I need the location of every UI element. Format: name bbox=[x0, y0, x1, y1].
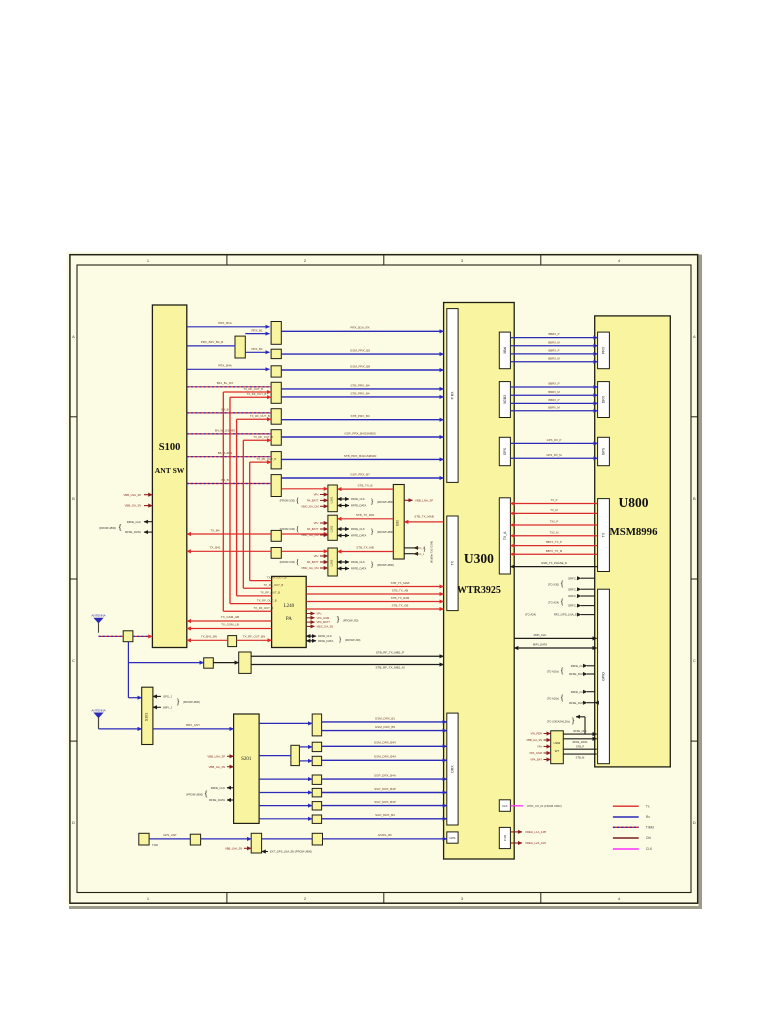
svg-text:TX_GSM_LB: TX_GSM_LB bbox=[221, 623, 239, 627]
svg-text:STB_TX_GB: STB_TX_GB bbox=[392, 604, 409, 608]
svg-text:{: { bbox=[560, 694, 564, 703]
svg-text:TriMd: TriMd bbox=[646, 826, 654, 830]
svg-text:VPx: VPx bbox=[537, 745, 543, 749]
svg-text:(FROM U800): (FROM U800) bbox=[377, 500, 394, 504]
svg-text:XBal: XBal bbox=[503, 347, 507, 354]
svg-text:B: B bbox=[72, 496, 75, 501]
svg-text:L240: L240 bbox=[284, 604, 295, 609]
svg-text:WIFI_J: WIFI_J bbox=[163, 705, 172, 709]
svg-text:}: } bbox=[370, 527, 374, 536]
svg-text:RFFE_DATA: RFFE_DATA bbox=[351, 504, 366, 508]
svg-text:BBRX_P: BBRX_P bbox=[548, 382, 559, 386]
svg-text:BBRX_P: BBRX_P bbox=[548, 332, 559, 336]
svg-text:WTR_XO_IN (FROM U802): WTR_XO_IN (FROM U802) bbox=[527, 804, 562, 808]
svg-text:GSM_DRX_B4V: GSM_DRX_B4V bbox=[374, 741, 396, 745]
svg-text:SGP_DRX_B3P: SGP_DRX_B3P bbox=[374, 800, 396, 804]
svg-text:}: } bbox=[370, 497, 374, 506]
svg-text:RFFE_DATA: RFFE_DATA bbox=[573, 740, 588, 744]
svg-text:{: { bbox=[204, 789, 208, 799]
svg-text:GSM_TX_PHASE_D: GSM_TX_PHASE_D bbox=[541, 561, 567, 565]
svg-text:(FROM U800): (FROM U800) bbox=[377, 563, 394, 567]
svg-text:(FROM U800): (FROM U800) bbox=[186, 793, 203, 797]
svg-text:PRX_B1A_RX: PRX_B1A_RX bbox=[350, 326, 369, 330]
svg-text:TX: TX bbox=[602, 532, 606, 537]
svg-text:}: } bbox=[370, 560, 374, 569]
svg-text:L263: L263 bbox=[330, 559, 334, 566]
svg-text:PRX_B1A: PRX_B1A bbox=[218, 321, 232, 325]
svg-text:U302: U302 bbox=[554, 741, 561, 745]
svg-text:U800: U800 bbox=[619, 495, 649, 510]
svg-text:GSM_PRX_B8: GSM_PRX_B8 bbox=[350, 364, 370, 368]
svg-text:(FROM U30): (FROM U30) bbox=[345, 638, 360, 642]
svg-text:S101: S101 bbox=[144, 713, 148, 721]
svg-text:EXT_GPS_LNA_EN (FROM U800): EXT_GPS_LNA_EN (FROM U800) bbox=[270, 850, 312, 854]
svg-text:BBRX_M: BBRX_M bbox=[548, 340, 560, 344]
svg-text:TX_B41_BN: TX_B41_BN bbox=[201, 635, 217, 639]
svg-text:BBTX_TX_M: BBTX_TX_M bbox=[546, 549, 563, 553]
svg-text:RFFE_CLK: RFFE_CLK bbox=[318, 634, 332, 638]
svg-text:(TO A10x): (TO A10x) bbox=[547, 697, 559, 701]
svg-text:STB_RF_TX_MB1_P: STB_RF_TX_MB1_P bbox=[376, 651, 405, 655]
svg-text:(TO U30/A24/L26x): (TO U30/A24/L26x) bbox=[547, 720, 570, 724]
svg-text:{: { bbox=[560, 598, 564, 607]
svg-text:SGP_DRX_B4P: SGP_DRX_B4P bbox=[374, 787, 396, 791]
svg-text:VBB_LNA_3P: VBB_LNA_3P bbox=[415, 499, 433, 503]
svg-text:(41dBm TX2 GSM): (41dBm TX2 GSM) bbox=[429, 541, 433, 563]
svg-text:VPx: VPx bbox=[314, 493, 320, 497]
svg-text:{: { bbox=[296, 557, 300, 566]
svg-text:A: A bbox=[72, 334, 75, 339]
svg-text:PA_BATT: PA_BATT bbox=[307, 527, 319, 531]
svg-text:VPx: VPx bbox=[314, 554, 320, 558]
svg-text:RFFE_DATA: RFFE_DATA bbox=[569, 701, 585, 705]
svg-text:ANTENNA: ANTENNA bbox=[91, 709, 105, 713]
svg-text:VBB_GA_3N: VBB_GA_3N bbox=[526, 738, 542, 742]
svg-text:TX2_P: TX2_P bbox=[550, 520, 559, 524]
svg-text:GSP_PRX_B4GSM850: GSP_PRX_B4GSM850 bbox=[344, 431, 376, 435]
svg-text:TX_B41: TX_B41 bbox=[210, 546, 221, 550]
svg-text:RFFE_CLK: RFFE_CLK bbox=[573, 729, 587, 733]
svg-text:PA_BATT: PA_BATT bbox=[307, 560, 319, 564]
svg-text:RFFE_CLK: RFFE_CLK bbox=[571, 690, 585, 694]
svg-text:L261: L261 bbox=[330, 496, 334, 503]
svg-text:SGP_DRX_B4A: SGP_DRX_B4A bbox=[374, 774, 396, 778]
svg-text:BBRX_M: BBRX_M bbox=[548, 405, 560, 409]
svg-text:TX_RF_OUT_B: TX_RF_OUT_B bbox=[264, 583, 284, 587]
svg-text:VPx: VPx bbox=[317, 612, 323, 616]
svg-text:}: } bbox=[336, 614, 340, 624]
svg-text:VBB_GA_3N: VBB_GA_3N bbox=[125, 504, 141, 508]
svg-text:BBRX_P: BBRX_P bbox=[548, 398, 559, 402]
svg-text:U300: U300 bbox=[464, 551, 494, 566]
svg-text:}: } bbox=[423, 546, 426, 553]
svg-text:}: } bbox=[338, 636, 341, 644]
svg-text:BRX_ANT: BRX_ANT bbox=[186, 723, 200, 727]
svg-text:TX_RF_OUT_BN: TX_RF_OUT_BN bbox=[243, 635, 266, 639]
svg-text:STB_TX_B: STB_TX_B bbox=[357, 483, 372, 487]
svg-text:RF2_GPS_LNA_EN: RF2_GPS_LNA_EN bbox=[554, 613, 579, 617]
svg-text:Rx: Rx bbox=[646, 815, 650, 819]
svg-text:STB_TX_MAB: STB_TX_MAB bbox=[414, 515, 434, 519]
svg-text:(FROM U800): (FROM U800) bbox=[377, 530, 394, 534]
svg-text:RFFE_DATA: RFFE_DATA bbox=[351, 567, 366, 571]
svg-text:RFFE_DATA: RFFE_DATA bbox=[569, 672, 585, 676]
svg-text:Tx: Tx bbox=[646, 804, 650, 808]
svg-text:STB_TX_MB: STB_TX_MB bbox=[356, 546, 374, 550]
svg-text:STB_M: STB_M bbox=[576, 756, 585, 760]
svg-text:TX_M: TX_M bbox=[550, 508, 558, 512]
svg-text:B4_B: B4_B bbox=[221, 407, 228, 411]
svg-text:DRX: DRX bbox=[451, 765, 455, 773]
svg-text:STB_TX_MAB: STB_TX_MAB bbox=[391, 581, 410, 585]
svg-text:BBRX_P: BBRX_P bbox=[548, 349, 559, 353]
svg-text:GSM_PRX_B5: GSM_PRX_B5 bbox=[350, 349, 370, 353]
svg-text:P-PA: P-PA bbox=[503, 835, 507, 841]
svg-text:L262: L262 bbox=[330, 525, 334, 532]
svg-text:RFFE_CLK: RFFE_CLK bbox=[127, 520, 141, 524]
svg-text:C: C bbox=[72, 658, 75, 663]
svg-text:STB_TX_RAB: STB_TX_RAB bbox=[391, 596, 410, 600]
svg-text:GPS: GPS bbox=[503, 447, 507, 455]
svg-text:VBIC_GA_3N: VBIC_GA_3N bbox=[317, 625, 334, 629]
svg-text:RFFE_CLK: RFFE_CLK bbox=[351, 527, 365, 531]
svg-text:GRFC_4: GRFC_4 bbox=[568, 604, 579, 608]
svg-text:B4_W_GSM85: B4_W_GSM85 bbox=[215, 428, 235, 432]
svg-text:(FROM U30): (FROM U30) bbox=[280, 499, 295, 503]
svg-text:VREG_L2A_1P2: VREG_L2A_1P2 bbox=[525, 841, 546, 845]
svg-text:TX_P: TX_P bbox=[551, 498, 558, 502]
svg-text:BBTX_TX_P: BBTX_TX_P bbox=[546, 540, 562, 544]
svg-text:CLK: CLK bbox=[502, 804, 508, 808]
svg-text:CLK: CLK bbox=[646, 847, 653, 851]
svg-text:ANT SW: ANT SW bbox=[155, 466, 185, 475]
svg-text:(FROM U30): (FROM U30) bbox=[343, 619, 358, 623]
svg-text:(TO A24): (TO A24) bbox=[548, 601, 559, 605]
svg-text:VREG_L1A_1P8: VREG_L1A_1P8 bbox=[525, 830, 546, 834]
svg-text:VBB_LNA_3P: VBB_LNA_3P bbox=[123, 493, 141, 497]
svg-text:WTR3925: WTR3925 bbox=[457, 585, 501, 596]
svg-text:VPA_GSM: VPA_GSM bbox=[317, 616, 331, 620]
svg-text:GSM_DRX_B1: GSM_DRX_B1 bbox=[375, 716, 396, 720]
svg-text:B4_B: B4_B bbox=[221, 478, 228, 482]
svg-text:STB_PRX_B4: STB_PRX_B4 bbox=[350, 383, 369, 387]
svg-text:U30: U30 bbox=[396, 520, 400, 526]
svg-text:DRX: DRX bbox=[602, 395, 606, 403]
svg-text:TX_RF_OUT_B: TX_RF_OUT_B bbox=[247, 392, 267, 396]
svg-text:STB_PRX_B4: STB_PRX_B4 bbox=[350, 391, 369, 395]
svg-text:VPx: VPx bbox=[314, 521, 320, 525]
svg-text:VBB_LNA_3N: VBB_LNA_3N bbox=[225, 846, 242, 850]
svg-text:RFFE_DATA: RFFE_DATA bbox=[209, 798, 225, 802]
svg-text:RFFE_DATA: RFFE_DATA bbox=[125, 530, 141, 534]
svg-text:}: } bbox=[176, 698, 180, 707]
svg-text:MIPI_DATA: MIPI_DATA bbox=[533, 643, 547, 647]
svg-text:TX_RF_OUT_B: TX_RF_OUT_B bbox=[243, 387, 263, 391]
svg-text:VPA_BATT: VPA_BATT bbox=[317, 620, 331, 624]
svg-text:VBIC_GA_CM: VBIC_GA_CM bbox=[301, 533, 319, 537]
svg-text:MSM8996: MSM8996 bbox=[610, 526, 659, 538]
svg-text:{: { bbox=[118, 522, 122, 532]
svg-text:GSP_PRX_B7: GSP_PRX_B7 bbox=[350, 472, 370, 476]
svg-text:RFFE_DATA: RFFE_DATA bbox=[318, 639, 333, 643]
svg-text:PRX_B1V_B4_B: PRX_B1V_B4_B bbox=[201, 340, 224, 344]
svg-text:VPA_BAT: VPA_BAT bbox=[530, 758, 542, 762]
svg-text:{: { bbox=[560, 666, 564, 675]
svg-text:GSM_DRX_B4A: GSM_DRX_B4A bbox=[374, 755, 396, 759]
svg-text:VBB_LNA_3P: VBB_LNA_3P bbox=[207, 754, 225, 758]
svg-text:VBIC_GA_CM: VBIC_GA_CM bbox=[301, 504, 319, 508]
svg-text:}: } bbox=[571, 717, 575, 726]
svg-text:TX_RF_OUT_B: TX_RF_OUT_B bbox=[267, 575, 287, 579]
svg-text:MIPI_CLK: MIPI_CLK bbox=[534, 633, 547, 637]
svg-text:S100: S100 bbox=[159, 442, 181, 453]
svg-text:GNSS_RF: GNSS_RF bbox=[378, 833, 392, 837]
svg-text:GRFC_3: GRFC_3 bbox=[568, 594, 579, 598]
svg-text:WT: WT bbox=[555, 749, 560, 753]
svg-text:GSM_DRX_B5: GSM_DRX_B5 bbox=[375, 725, 396, 729]
svg-text:TX_RF_OUT_B: TX_RF_OUT_B bbox=[250, 414, 270, 418]
svg-text:PRX_B4A: PRX_B4A bbox=[218, 364, 232, 368]
svg-text:VPA_GSM: VPA_GSM bbox=[529, 751, 543, 755]
svg-text:(TO A24): (TO A24) bbox=[525, 613, 536, 617]
svg-text:RFFE_CLK: RFFE_CLK bbox=[351, 497, 365, 501]
svg-text:Ctrl: Ctrl bbox=[646, 836, 651, 840]
svg-text:GPS_ANT: GPS_ANT bbox=[163, 833, 177, 837]
svg-text:PRX: PRX bbox=[602, 346, 606, 354]
svg-text:TX_B4: TX_B4 bbox=[210, 528, 220, 532]
svg-text:XGB3: XGB3 bbox=[503, 395, 507, 404]
svg-text:BBRX_M: BBRX_M bbox=[548, 390, 560, 394]
svg-text:(FROM U800): (FROM U800) bbox=[99, 526, 116, 530]
svg-text:VBB_GA_3N: VBB_GA_3N bbox=[209, 765, 225, 769]
svg-text:{: { bbox=[560, 580, 564, 589]
svg-text:C: C bbox=[693, 658, 696, 663]
svg-text:(TO U30): (TO U30) bbox=[548, 583, 559, 587]
svg-text:PRX_B4: PRX_B4 bbox=[251, 347, 262, 351]
svg-text:GPIO: GPIO bbox=[602, 672, 606, 681]
svg-text:VIN_PER: VIN_PER bbox=[530, 732, 542, 736]
svg-text:BBRX_M: BBRX_M bbox=[548, 356, 560, 360]
svg-text:TX_RF_OUT_B: TX_RF_OUT_B bbox=[257, 457, 277, 461]
svg-text:(TO A10x): (TO A10x) bbox=[547, 669, 559, 673]
svg-text:TX_RF_OUT_B: TX_RF_OUT_B bbox=[253, 435, 273, 439]
svg-text:GPS_RX_M: GPS_RX_M bbox=[546, 453, 562, 457]
svg-text:TX_A: TX_A bbox=[503, 531, 507, 540]
svg-text:GRFC_2: GRFC_2 bbox=[568, 587, 579, 591]
svg-text:B: B bbox=[693, 496, 696, 501]
svg-text:PRX_B1: PRX_B1 bbox=[251, 328, 262, 332]
svg-text:TX_RF_OUT_B: TX_RF_OUT_B bbox=[257, 598, 277, 602]
svg-text:STB_P: STB_P bbox=[576, 745, 584, 749]
svg-text:D: D bbox=[693, 820, 696, 825]
svg-text:VBIC_GA_CM: VBIC_GA_CM bbox=[301, 566, 319, 570]
svg-text:B41_B+_RX: B41_B+_RX bbox=[217, 381, 234, 385]
svg-text:RFFE_CLK: RFFE_CLK bbox=[571, 664, 585, 668]
svg-text:TX_GSM_HB: TX_GSM_HB bbox=[221, 615, 239, 619]
svg-text:(FROM U30): (FROM U30) bbox=[280, 560, 295, 564]
svg-text:STB_RF_TX_MB1_M: STB_RF_TX_MB1_M bbox=[375, 666, 405, 670]
svg-text:GPS_RX_P: GPS_RX_P bbox=[547, 438, 562, 442]
svg-text:STB_TX_AB: STB_TX_AB bbox=[392, 589, 408, 593]
svg-text:SGP_DRX_B4: SGP_DRX_B4 bbox=[375, 813, 395, 817]
svg-text:GRFC_1: GRFC_1 bbox=[568, 576, 579, 580]
svg-text:ANTENNA: ANTENNA bbox=[91, 614, 105, 618]
svg-text:{: { bbox=[296, 524, 300, 533]
svg-text:STB_PRX_B4: STB_PRX_B4 bbox=[350, 414, 369, 418]
svg-text:(FROM U800): (FROM U800) bbox=[183, 700, 200, 704]
svg-text:RFFE_CLK: RFFE_CLK bbox=[351, 560, 365, 564]
svg-text:PA: PA bbox=[286, 617, 292, 622]
svg-text:STB_TX_MW: STB_TX_MW bbox=[356, 513, 375, 517]
svg-text:GPS: GPS bbox=[449, 836, 455, 840]
svg-text:GPS_J: GPS_J bbox=[163, 695, 172, 699]
svg-text:STB_PRX_B41GSM900: STB_PRX_B41GSM900 bbox=[344, 454, 377, 458]
svg-text:(FROM U30): (FROM U30) bbox=[280, 527, 295, 531]
svg-text:S201: S201 bbox=[241, 757, 252, 762]
svg-text:TX: TX bbox=[451, 560, 455, 565]
svg-text:A: A bbox=[693, 334, 696, 339]
svg-text:TX_RF_OUT_B: TX_RF_OUT_B bbox=[254, 606, 274, 610]
svg-text:GPS: GPS bbox=[602, 447, 606, 455]
svg-text:RFFE_DATA: RFFE_DATA bbox=[351, 534, 366, 538]
svg-text:TX_RF_OUT_B: TX_RF_OUT_B bbox=[260, 591, 280, 595]
svg-text:D: D bbox=[72, 820, 75, 825]
svg-text:T100: T100 bbox=[152, 843, 158, 847]
svg-text:RFFE_CLK: RFFE_CLK bbox=[211, 786, 225, 790]
svg-text:TX2_M: TX2_M bbox=[549, 530, 559, 534]
svg-text:PA_BATT: PA_BATT bbox=[307, 499, 319, 503]
svg-text:{: { bbox=[296, 496, 300, 505]
svg-text:P RX: P RX bbox=[451, 391, 455, 400]
